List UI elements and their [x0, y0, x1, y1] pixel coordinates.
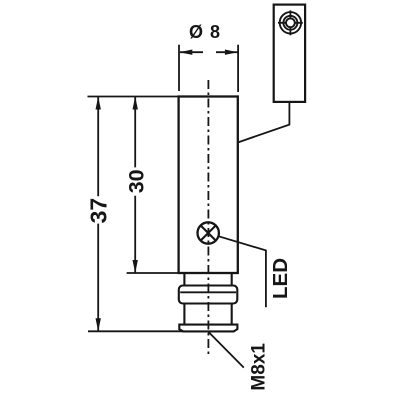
- LED indicator circle: [198, 222, 219, 243]
- thread barrel mid line: [180, 291, 236, 293]
- dimension 37 arrow down: [96, 318, 101, 331]
- sensor body: [179, 97, 238, 274]
- top extension line: [88, 96, 179, 98]
- svg-text:30: 30: [125, 169, 149, 193]
- bottom extension line dim 37: [88, 330, 184, 332]
- connector target outer circle: [280, 12, 301, 33]
- bottom extension line dim 30: [127, 272, 179, 274]
- extension line diameter left: [178, 45, 180, 91]
- connector target middle circle: [283, 16, 297, 30]
- M8x1 leader line: [208, 332, 244, 368]
- thread relief groove lower: [184, 304, 231, 325]
- dimension 37 arrow up: [96, 97, 101, 110]
- LED X cross: [201, 226, 216, 241]
- connector block: [274, 5, 305, 102]
- svg-text:M8x1: M8x1: [248, 343, 269, 391]
- extension line diameter right: [237, 45, 239, 92]
- diameter arrow left: [179, 50, 192, 55]
- dimension line diameter 8: [180, 51, 238, 53]
- LED leader line: [218, 236, 266, 307]
- connector target cross ticks: [278, 10, 303, 35]
- connector target inner circle: [286, 18, 295, 27]
- svg-text:LED: LED: [269, 258, 292, 299]
- dimension line 37: [97, 97, 99, 332]
- thread barrel: [179, 286, 238, 304]
- dimension line 30: [134, 97, 136, 274]
- sensing face flange: [179, 325, 237, 332]
- connector leader line: [238, 102, 290, 143]
- dimension 30 arrow down: [133, 260, 138, 273]
- svg-text:Ø 8: Ø 8: [189, 22, 221, 42]
- svg-text:37: 37: [85, 198, 111, 224]
- centerline: [207, 80, 209, 354]
- dimension 30 arrow up: [133, 97, 138, 110]
- diameter arrow right: [225, 50, 238, 55]
- thread relief groove upper: [184, 273, 231, 286]
